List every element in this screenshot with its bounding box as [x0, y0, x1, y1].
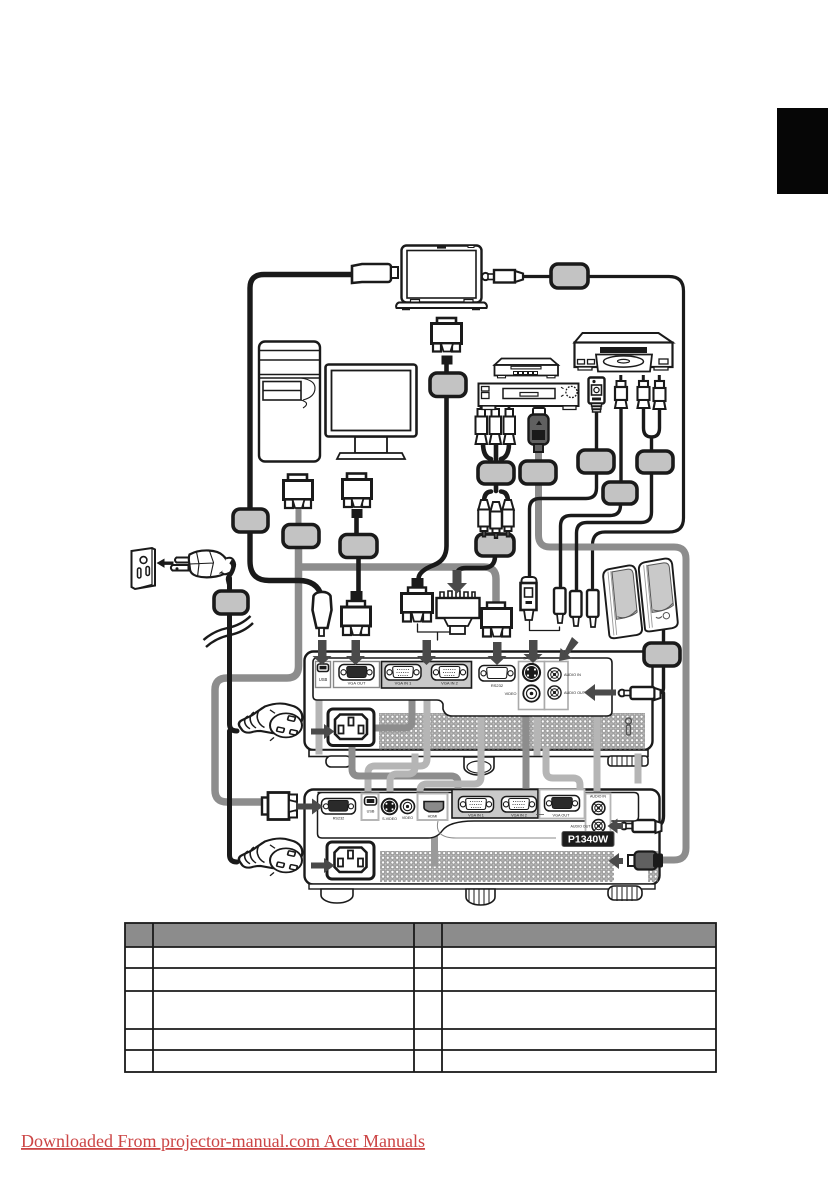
- arrow into proj1 audio out: [584, 684, 616, 701]
- table column lines: [153, 923, 442, 1072]
- WIRES-LAYER: [215, 275, 686, 863]
- svg-text:USB: USB: [319, 677, 328, 682]
- video plug into proj1: [570, 591, 582, 626]
- callout box 3rca upper: [478, 462, 514, 484]
- projector 1 center foot: [464, 757, 494, 775]
- TABLE: [125, 923, 716, 1072]
- dvd yellow rca plug: [615, 375, 627, 408]
- audio plug at laptop: [482, 270, 523, 283]
- weave wire s-video elbow: [390, 757, 415, 798]
- weave wire audio passthrough: [594, 705, 601, 800]
- weave wire usb passthrough: [368, 688, 427, 797]
- weave wire video passthrough: [420, 688, 481, 800]
- proj2 usb port: [362, 794, 379, 821]
- vga connector monitor cable: [284, 475, 313, 509]
- s-video cable connector head: [589, 378, 605, 413]
- projector 1 left foot: [326, 756, 351, 767]
- language tab black: [777, 108, 828, 194]
- svg-text:VGA IN 2: VGA IN 2: [441, 681, 458, 686]
- c13 plug proj2: [239, 838, 303, 875]
- svg-text:VGA OUT: VGA OUT: [553, 814, 571, 818]
- ARROWS: [298, 570, 623, 873]
- rca plugs up to vcr: [476, 403, 516, 444]
- stereo receiver: [495, 359, 559, 378]
- cable break squiggle: [204, 616, 254, 647]
- callout box laptop audio: [551, 264, 588, 288]
- bracket line usb-b and s-video plug: [530, 620, 560, 631]
- callout box hdmi: [520, 461, 556, 484]
- wire from 3rca box to vga adapter arrow: [457, 556, 495, 575]
- vga connector from laptop into proj1: [402, 578, 433, 622]
- weave wire vga-out passthrough: [546, 750, 580, 796]
- rca plugs down from 3rca box: [478, 500, 514, 538]
- proj1 usb port: [316, 662, 331, 688]
- svg-text:VGA IN 2: VGA IN 2: [511, 814, 527, 818]
- monitor: [326, 365, 417, 460]
- hdmi plug into proj2 side: [628, 852, 663, 870]
- svg-text:VGA OUT: VGA OUT: [348, 681, 366, 686]
- proj2 power inlet: [327, 842, 374, 879]
- projector 2 right foot: [608, 886, 642, 901]
- callout box pc cable: [340, 535, 377, 558]
- arrow into outlet: [157, 559, 174, 568]
- power plug nema: [171, 550, 235, 584]
- proj2 connector panel plate: [318, 793, 639, 839]
- wire dvi cable from laptop: [419, 362, 447, 579]
- callout box monitor cable: [283, 525, 319, 548]
- callout box power cord: [214, 591, 248, 614]
- wire s-video from receiver to connector: [530, 410, 597, 580]
- svg-text:VGA IN 1: VGA IN 1: [395, 681, 412, 686]
- svg-text:AUDIO OUT: AUDIO OUT: [564, 691, 586, 695]
- wire hdmi cable: [539, 452, 687, 860]
- pc tower: [259, 342, 320, 462]
- proj1 vga in section gray: [382, 662, 472, 689]
- laptop: [396, 246, 487, 311]
- wire monitor vga cable upper: [296, 508, 302, 525]
- proj2 rs232 port: [322, 799, 356, 821]
- bracket line vga connectors: [418, 624, 459, 640]
- svg-text:AUDIO IN: AUDIO IN: [564, 673, 581, 677]
- projector 1 vents: [379, 713, 645, 750]
- proj2 vga out port: [536, 790, 585, 819]
- svg-text:RS232: RS232: [491, 683, 504, 688]
- CALLOUT-BOXES: [214, 264, 680, 666]
- svg-text:VGA IN 1: VGA IN 1: [468, 814, 484, 818]
- wire dvd yellow rca: [561, 407, 622, 586]
- wire monitor vga to rs232 proj2: [215, 547, 299, 802]
- arrow into proj1 vga in: [417, 640, 436, 665]
- proj1 audio section: [545, 662, 586, 710]
- usb plug at laptop: [352, 264, 398, 283]
- svg-text:VIDEO: VIDEO: [505, 692, 517, 696]
- proj1 rs232 port: [479, 666, 515, 689]
- usb-b connector into proj1: [313, 592, 332, 636]
- arrow into proj2 audio out: [608, 819, 624, 834]
- wall outlet: [132, 548, 156, 589]
- svg-text:AUDIO IN: AUDIO IN: [590, 795, 606, 799]
- arrow into proj2 hdmi side: [609, 853, 624, 869]
- proj2 video port: [401, 800, 415, 821]
- c13 plug proj1: [239, 703, 303, 740]
- projector 2 body: [305, 790, 660, 890]
- arrow into proj1 vga out: [346, 640, 365, 665]
- wire dvd rca pair: [577, 408, 660, 589]
- weave wire vga-in1 passthrough: [352, 697, 458, 796]
- speaker audio plug proj1: [619, 687, 661, 700]
- wire audio cable from laptop: [522, 277, 684, 589]
- callout box yellow rca: [603, 482, 637, 504]
- svg-text:S-VIDEO: S-VIDEO: [382, 817, 397, 821]
- wire usb cable from laptop: [250, 275, 352, 597]
- wire 3rca bundle upper merge: [483, 443, 509, 462]
- proj1 power inlet: [328, 709, 374, 746]
- audio plug into proj1: [587, 590, 599, 627]
- callout box speaker: [644, 643, 680, 666]
- projector 1 right foot: [608, 756, 648, 766]
- callout box s-video: [578, 450, 614, 473]
- svg-text:P1340W: P1340W: [568, 834, 608, 846]
- arrow into proj1 usb: [313, 640, 332, 665]
- weave wire stub audio-out: [635, 757, 642, 780]
- dvi connector gray into proj1 rs232: [482, 603, 512, 637]
- arrow into proj1 rs232: [488, 642, 507, 665]
- table header fill: [125, 923, 716, 947]
- dvi connector into proj2 rs232: [262, 793, 297, 820]
- proj1 s-video video section: [505, 657, 545, 710]
- wire 3rca bundle lower split: [484, 484, 508, 502]
- arrow into proj2 rs232: [298, 799, 323, 815]
- weave wire vga-in2 passthrough: [523, 700, 530, 800]
- footer link: [21, 1131, 425, 1151]
- usb-b small connector: [521, 577, 537, 620]
- vga connector pc cable: [343, 474, 372, 519]
- wire power cord: [230, 578, 238, 862]
- hdmi connector dark: [529, 408, 549, 452]
- proj2 hdmi port: [418, 794, 448, 821]
- dvd rca pair plugs: [638, 375, 666, 409]
- proj2 audio section: [571, 794, 611, 836]
- callout box rca pair: [637, 451, 673, 473]
- weave wire hdmi stub below port: [431, 812, 438, 863]
- callout box laptop dvi cable: [430, 373, 466, 397]
- wire speaker cable: [655, 628, 664, 826]
- speaker audio plug proj2: [621, 820, 662, 833]
- projector 2 left foot: [321, 889, 353, 903]
- proj1 vga out port: [334, 662, 380, 688]
- arrow into proj1 power: [311, 724, 335, 739]
- arrow diagonal into proj1 audio in: [559, 637, 579, 661]
- arrow into proj1 s-video: [524, 640, 543, 663]
- callout box on usb cable: [233, 509, 268, 532]
- projector 1 kensington lock: [626, 718, 632, 735]
- speakers: [602, 558, 678, 639]
- arrow dark into vga adapter: [447, 570, 467, 594]
- svg-text:AUDIO OUT: AUDIO OUT: [571, 825, 592, 829]
- projector 2 center foot: [466, 889, 495, 905]
- dvd player: [575, 333, 673, 372]
- weave wire stub usb1 down: [316, 690, 323, 751]
- proj2 vga in section gray: [452, 790, 538, 819]
- svg-text:VIDEO: VIDEO: [402, 816, 413, 820]
- svg-text:RS232: RS232: [333, 817, 345, 821]
- proj2 model label P1340W: [562, 832, 614, 847]
- gray wire weave between projectors: [319, 688, 638, 863]
- table row lines: [125, 947, 716, 1050]
- wire gray branch to vga-in proj1: [300, 567, 496, 603]
- proj2 s-video port: [381, 798, 399, 821]
- vga adapter connector pins-up: [437, 591, 480, 634]
- proj1 connector panel plate: [313, 658, 612, 716]
- projector 2 vents: [380, 851, 658, 882]
- projector 1 body: [305, 652, 653, 757]
- s-video plug into proj1: [554, 588, 566, 623]
- svg-text:HDMI: HDMI: [428, 815, 438, 819]
- vcr: [479, 384, 579, 410]
- dvi connector under laptop: [432, 318, 462, 365]
- wire pc vga cable: [357, 518, 359, 591]
- arrow into proj2 power: [311, 858, 335, 873]
- weave wire s-video passthrough: [534, 703, 541, 752]
- callout box 3rca lower: [476, 534, 514, 556]
- svg-text:Downloaded From projector-manu: Downloaded From projector-manual.com Ace…: [21, 1131, 425, 1151]
- vga connector into proj1 vga-out: [342, 591, 371, 635]
- svg-text:USB: USB: [367, 810, 375, 814]
- table outer border: [125, 923, 716, 1072]
